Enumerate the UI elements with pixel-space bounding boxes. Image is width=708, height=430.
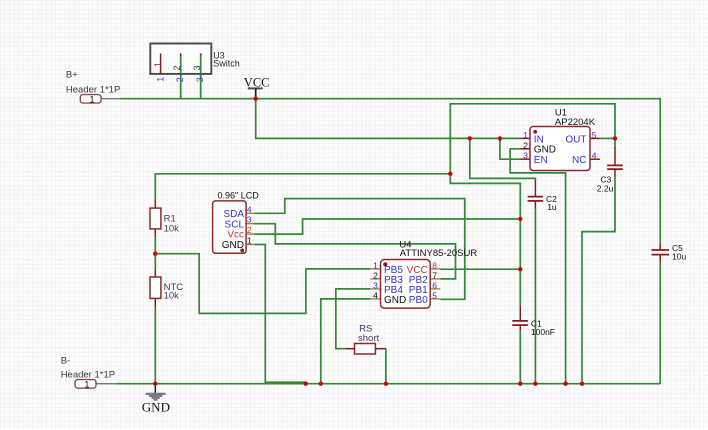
- svg-text:2: 2: [172, 65, 182, 70]
- svg-text:1: 1: [153, 62, 163, 67]
- junction IN wire / EN branch: [498, 136, 502, 140]
- wire VCC top rail from B+ to right edge: [121, 99, 661, 244]
- wire right-edge below C5 to ground rail: [659, 262, 661, 384]
- wire OUT net down to C1: [450, 174, 520, 306]
- svg-text:3: 3: [373, 281, 378, 291]
- resistor R1 bottom lead: [154, 229, 156, 238]
- pin stub LCD pin3: [246, 223, 254, 225]
- pin stub LCD pin4: [246, 212, 254, 214]
- PIN STUBS: [155, 138, 660, 348]
- switch pin2 inner line: [180, 53, 182, 74]
- capacitor C3 bottom lead: [614, 169, 616, 176]
- svg-text:2: 2: [247, 225, 252, 235]
- wire switch pin3 drop: [200, 55, 202, 99]
- resistor NTC bottom lead: [154, 299, 156, 308]
- svg-text:10k: 10k: [164, 291, 180, 302]
- pin stub LCD pin1: [246, 244, 254, 246]
- pin stub U4 pin4: [370, 298, 380, 300]
- pin stub U1 pin5 OUT: [590, 137, 600, 139]
- capacitor C1 bottom lead: [519, 325, 521, 330]
- svg-text:EN: EN: [534, 155, 548, 166]
- capacitor C5 top lead: [659, 243, 661, 250]
- wire OUT net top run: [450, 104, 615, 174]
- switch U3 body: [150, 44, 211, 74]
- junction IN wire / C2 branch: [468, 136, 472, 140]
- capacitor C3 plates: [607, 165, 623, 169]
- junction U4 VCC tap: [518, 267, 522, 271]
- svg-text:SCL: SCL: [225, 219, 245, 230]
- wire U1 GND to ground rail: [510, 149, 565, 384]
- svg-text:3: 3: [192, 65, 202, 70]
- svg-text:GND: GND: [142, 400, 170, 415]
- resistor NTC body: [150, 277, 161, 298]
- junction OUT net corner: [448, 172, 452, 176]
- wire sense node to U4 PB5: [155, 254, 370, 314]
- svg-text:100nF: 100nF: [531, 327, 555, 337]
- svg-text:1: 1: [247, 236, 252, 246]
- wire SDA LCD pin4 to U4 PB0: [255, 199, 465, 300]
- wire LCD GND to rail: [255, 245, 306, 384]
- svg-text:short: short: [358, 333, 379, 344]
- svg-text:1: 1: [155, 77, 165, 82]
- capacitor C1 plates: [512, 321, 528, 325]
- svg-text:B-: B-: [61, 355, 70, 366]
- wire U4 GND pin to rail: [321, 299, 371, 384]
- junction rail C2: [533, 382, 537, 386]
- pin stub U1 pin4 NC: [590, 158, 600, 160]
- junction rail C1: [518, 382, 522, 386]
- junction LCD Vcc tap: [518, 217, 522, 221]
- VCC net flag stem: [255, 88, 257, 98]
- capacitor C1 top lead: [519, 306, 521, 321]
- pin stub header B+: [101, 98, 120, 100]
- svg-text:SDA: SDA: [223, 209, 244, 220]
- pin stub U4 pin1: [370, 268, 380, 270]
- svg-text:VCC: VCC: [244, 75, 270, 89]
- svg-text:8: 8: [432, 260, 437, 270]
- resistor R1 body: [150, 208, 161, 229]
- junction rail at GND symbol: [153, 382, 157, 386]
- wire VCC to U1 IN: [256, 99, 521, 139]
- junction rail U4 GND: [319, 382, 323, 386]
- svg-text:7: 7: [432, 270, 437, 280]
- svg-text:0.96" LCD: 0.96" LCD: [218, 190, 260, 200]
- svg-text:PB0: PB0: [409, 295, 428, 306]
- pin stub U1 pin2 GND: [520, 148, 530, 150]
- capacitor C2 plates: [528, 197, 544, 201]
- wire OUT junction to C3 top: [614, 141, 616, 148]
- svg-text:GND: GND: [222, 240, 244, 251]
- wire switch pin2 drop: [180, 55, 182, 99]
- svg-text:4: 4: [592, 151, 597, 161]
- svg-text:1: 1: [89, 94, 94, 105]
- svg-text:1: 1: [523, 130, 528, 140]
- svg-text:GND: GND: [384, 295, 406, 306]
- wire U4 PB4 to RS left: [336, 289, 371, 349]
- svg-text:Vcc: Vcc: [227, 230, 244, 241]
- wire IN to C2 top: [470, 138, 536, 180]
- LCD pin1 marker: [240, 249, 244, 253]
- svg-text:NC: NC: [572, 155, 586, 166]
- IC U4 body (ATTINY85): [381, 260, 431, 309]
- resistor NTC top lead: [154, 270, 156, 277]
- svg-text:2.2u: 2.2u: [597, 184, 614, 194]
- svg-text:OUT: OUT: [565, 134, 586, 145]
- svg-text:1: 1: [84, 379, 89, 390]
- pin stub header B-: [96, 383, 116, 385]
- junction rail C3: [580, 382, 584, 386]
- junction OUT pin: [613, 136, 617, 140]
- wire C3 bottom to rail: [582, 177, 615, 384]
- wire LCD Vcc to OUT vertical: [255, 219, 521, 234]
- wire OUT net to R1 top: [155, 174, 450, 200]
- svg-text:3: 3: [195, 77, 205, 82]
- LCD body: [213, 201, 247, 253]
- switch pin3 inner line: [200, 53, 202, 74]
- pin stub U1 pin1 IN: [520, 137, 530, 139]
- svg-text:Switch: Switch: [213, 59, 240, 69]
- resistor RS body: [355, 344, 376, 355]
- svg-text:10k: 10k: [164, 223, 180, 234]
- wire SCL LCD pin3 to U4 PB2: [255, 224, 456, 279]
- U4 pin1 marker: [383, 262, 387, 266]
- wire R1 bottom / NTC top: [154, 238, 156, 270]
- svg-text:3: 3: [523, 151, 528, 161]
- resistor R1 top lead: [154, 199, 156, 208]
- capacitor C5 plates: [652, 250, 670, 255]
- wire C1 bottom to rail: [519, 331, 521, 384]
- junction rail RS: [384, 382, 388, 386]
- svg-text:4: 4: [247, 204, 252, 214]
- capacitor C5 bottom lead: [659, 255, 661, 262]
- op-amp U1 body (AP2204K): [530, 127, 590, 171]
- svg-text:10u: 10u: [672, 252, 686, 262]
- pin stub U4 pin2: [370, 278, 380, 280]
- svg-text:ATTINY85-20SUR: ATTINY85-20SUR: [400, 248, 478, 259]
- capacitor C3 top lead: [614, 147, 616, 165]
- svg-text:3: 3: [247, 215, 252, 225]
- wire RS right to rail: [385, 349, 387, 384]
- capacitor C2 bottom lead: [534, 201, 536, 209]
- svg-text:B+: B+: [66, 69, 78, 80]
- svg-text:1: 1: [373, 260, 378, 270]
- pin stub U4 pin6: [430, 288, 440, 290]
- wire U4 VCC to OUT vertical: [440, 268, 520, 270]
- svg-text:6: 6: [432, 281, 437, 291]
- switch pin1 inner line: [160, 53, 162, 74]
- wire C2 bottom to rail: [534, 209, 536, 384]
- ground symbol: [146, 384, 166, 401]
- wire ground bottom rail: [116, 383, 660, 385]
- junction rail LCD GND: [304, 382, 308, 386]
- svg-text:2: 2: [373, 270, 378, 280]
- U1 pin1 marker: [533, 130, 537, 134]
- junction VCC rail: [254, 97, 258, 101]
- header B+ body: [80, 95, 101, 104]
- pin stub U1 pin3 EN: [520, 158, 530, 160]
- CAP PLATES: [512, 165, 669, 325]
- pin stub LCD pin2: [246, 233, 254, 235]
- pin stub U4 pin8: [430, 268, 440, 270]
- svg-text:1u: 1u: [547, 202, 557, 212]
- header B- body: [75, 380, 96, 389]
- svg-text:2: 2: [175, 77, 185, 82]
- wire EN tie to IN: [500, 138, 520, 159]
- junction R1/NTC sense node: [153, 252, 157, 256]
- svg-text:4: 4: [373, 291, 378, 301]
- wire OUT pin to junction: [600, 137, 615, 139]
- svg-text:5: 5: [432, 291, 437, 301]
- wire NTC bottom to rail: [154, 308, 156, 384]
- pin stub RS right: [375, 348, 386, 350]
- junction rail U1 GND: [563, 382, 567, 386]
- svg-text:2: 2: [523, 140, 528, 150]
- svg-text:AP2204K: AP2204K: [555, 117, 596, 128]
- pin stub RS left: [346, 348, 355, 350]
- VCC net flag bar: [248, 87, 263, 89]
- pin stub U4 pin5: [430, 298, 440, 300]
- svg-text:5: 5: [592, 130, 597, 140]
- capacitor C2 top lead: [534, 180, 536, 197]
- pin stub U4 pin7: [430, 278, 440, 280]
- pin stub U4 pin3: [370, 288, 380, 290]
